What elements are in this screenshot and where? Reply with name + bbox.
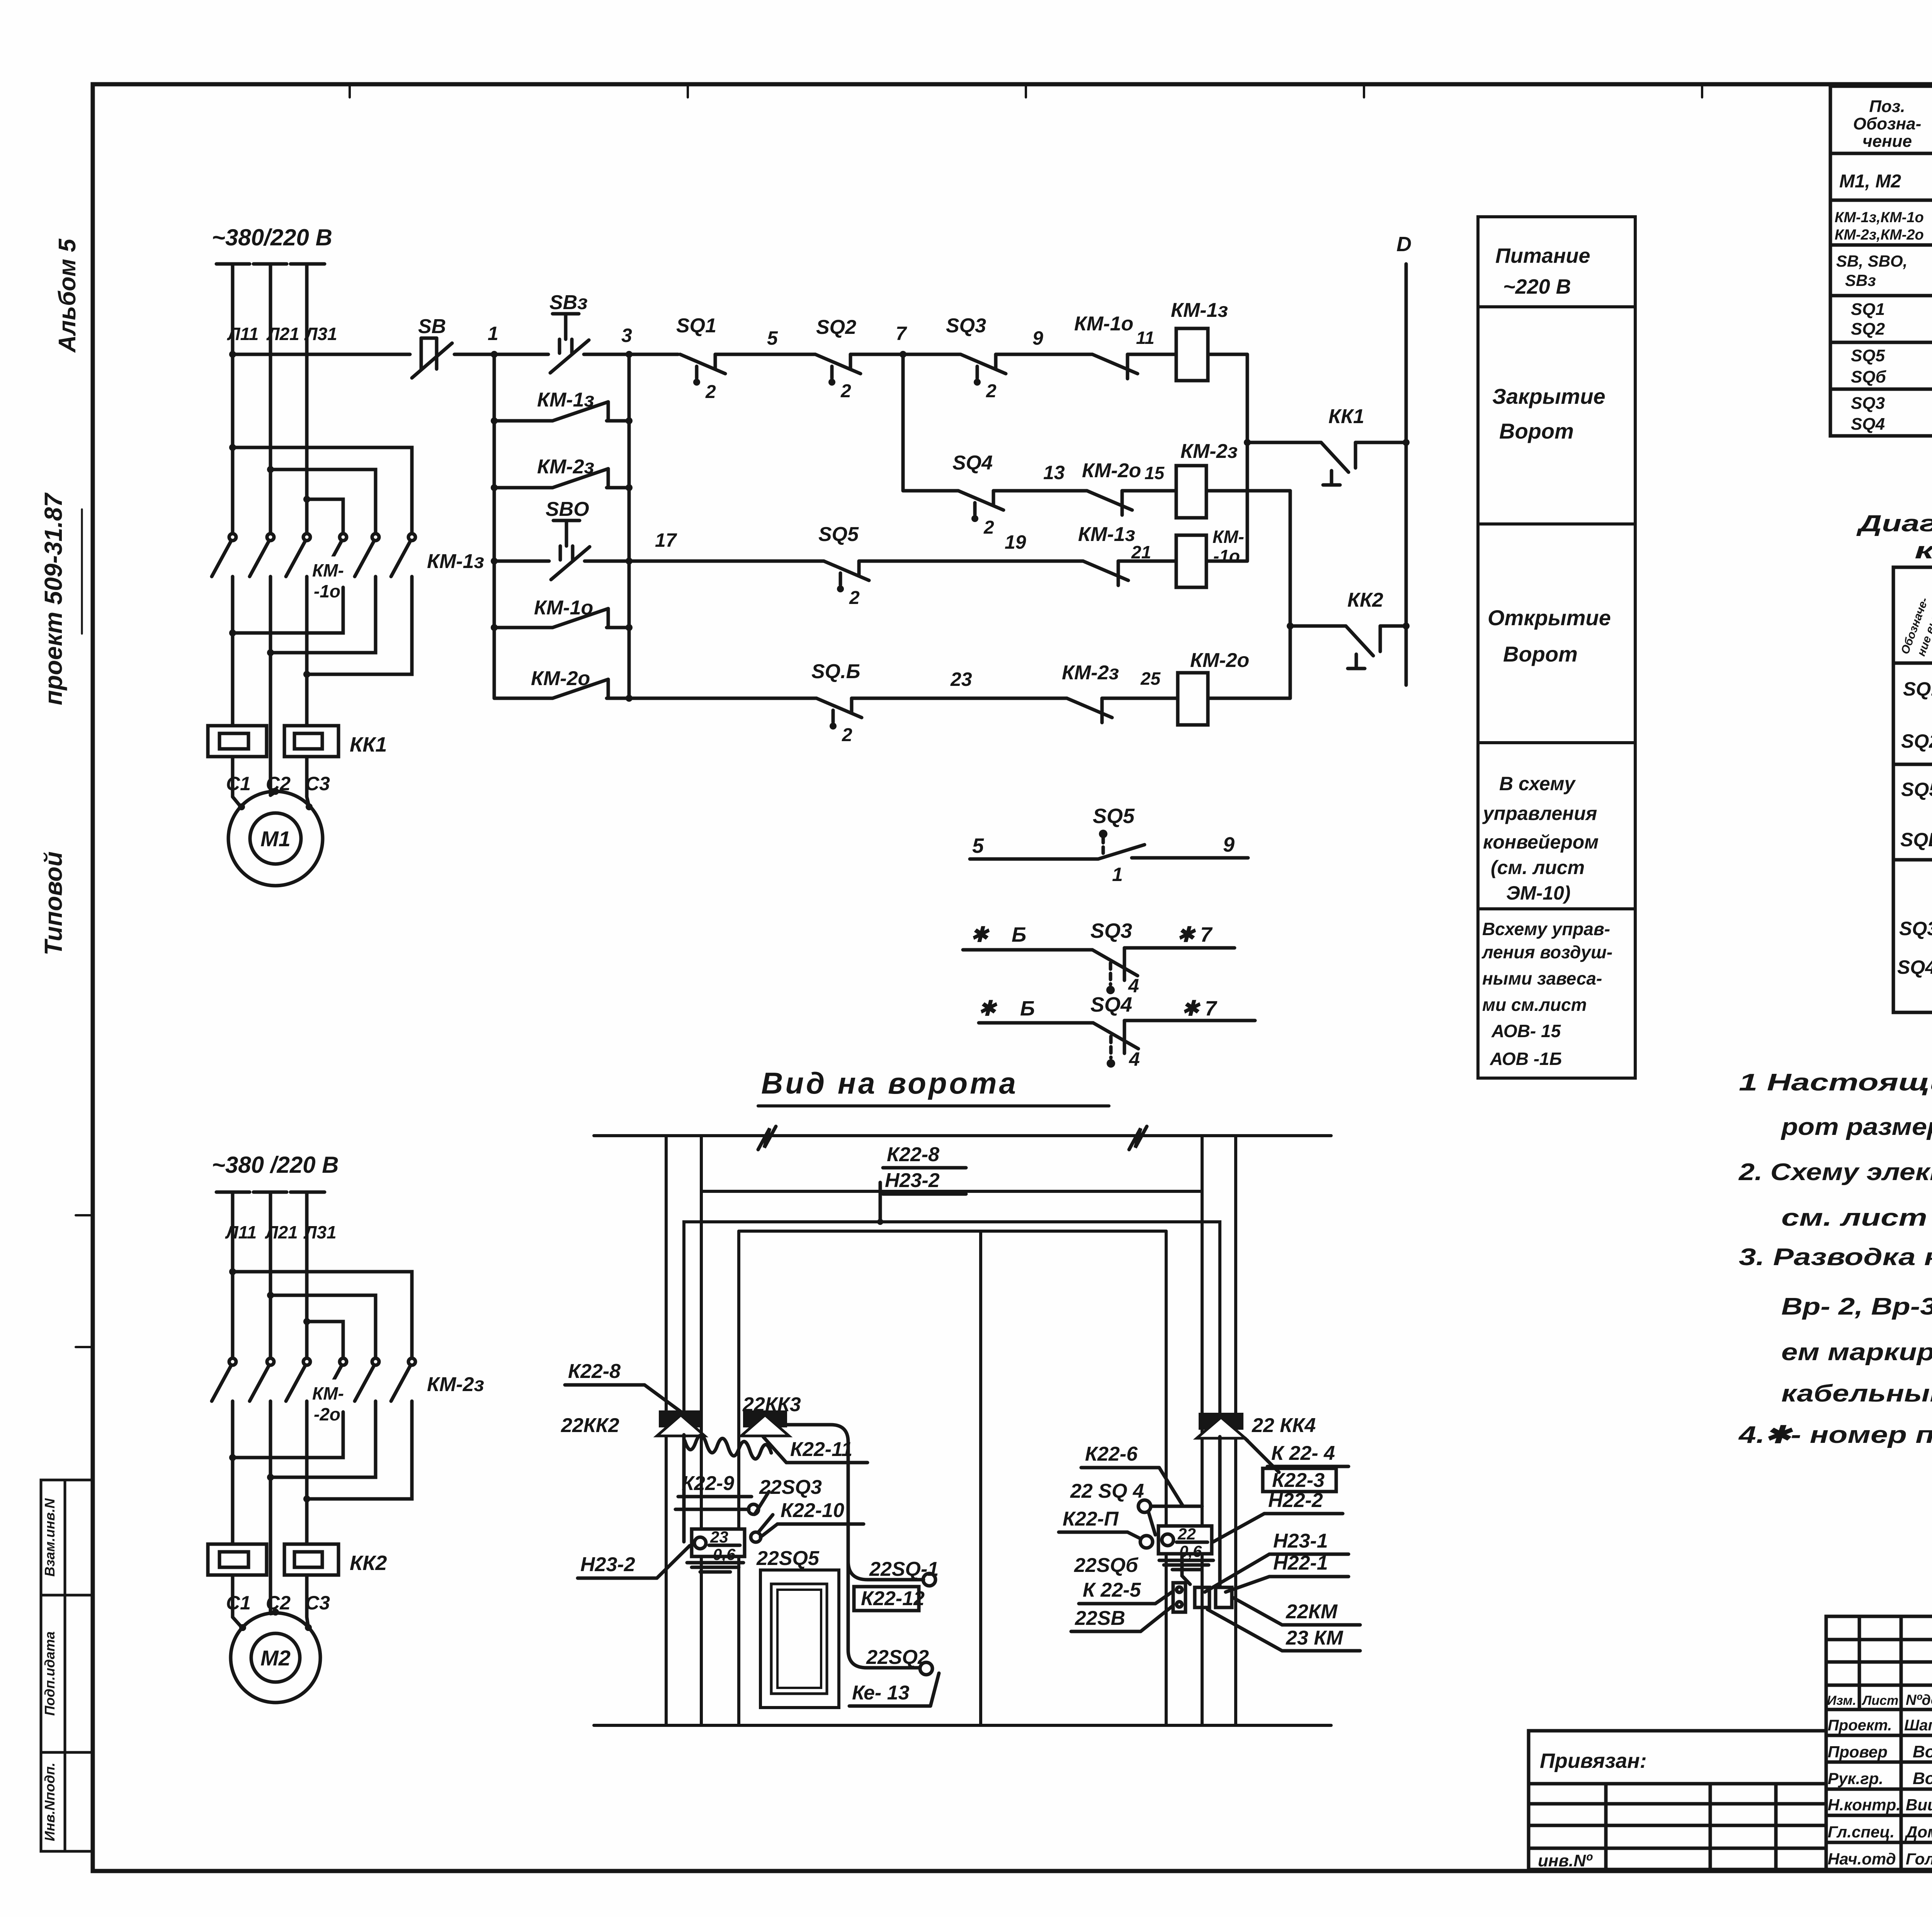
svg-text:чение: чение: [1862, 132, 1912, 151]
bracket 22SB: [1173, 1583, 1185, 1612]
motor M1 inner circle: [250, 813, 301, 864]
svg-text:1: 1: [1112, 864, 1123, 885]
label N22-1: [1226, 1552, 1349, 1592]
svg-text:-2о: -2о: [314, 1404, 340, 1424]
limit switch SQ1: [676, 315, 725, 402]
svg-text:~380 /220 В: ~380 /220 В: [212, 1152, 339, 1178]
svg-text:-1о: -1о: [1213, 546, 1240, 566]
svg-text:Лист: Лист: [1861, 1693, 1898, 1708]
svg-text:Шапошникова: Шапошникова: [1904, 1717, 1932, 1734]
svg-text:Подп.идата: Подп.идата: [42, 1631, 58, 1716]
wire row3 segment c: [1102, 697, 1178, 700]
diagram title: [1856, 510, 1932, 563]
strip divider vertical: [64, 1480, 66, 1851]
svg-text:Проект.: Проект.: [1828, 1717, 1892, 1734]
phase line L11: [231, 264, 235, 532]
bus node KK1: [1403, 439, 1410, 446]
svg-text:2: 2: [849, 588, 860, 608]
switch circle 22SQ-1: [923, 1573, 935, 1586]
svg-text:С1: С1: [226, 1592, 251, 1614]
SQ3 stem and dot: [1109, 963, 1112, 985]
svg-text:М1, М2: М1, М2: [1839, 171, 1901, 192]
row5 texts: [1851, 346, 1932, 387]
svg-text:Л11: Л11: [225, 1222, 257, 1242]
row line 3: [1830, 294, 1932, 298]
label K22-4: [1267, 1442, 1349, 1466]
air curtain 22KK3: [741, 1410, 789, 1436]
SQ5 right wire: [1132, 856, 1248, 860]
row2 texts: [1835, 204, 1932, 245]
label 22SQ2: [866, 1646, 929, 1669]
phase continuation to KK1: [231, 587, 235, 724]
svg-text:Н23-1: Н23-1: [1273, 1530, 1328, 1552]
svg-text:SQ4: SQ4: [1851, 415, 1885, 434]
label K22-12 boxed: [854, 1587, 925, 1611]
wire row1 segment b: [454, 353, 548, 356]
label K22-11: [763, 1437, 867, 1463]
label K22-9: [678, 1472, 752, 1497]
svg-text:4.✱- номер привода воздушной: 4.✱- номер привода воздушной завесы: [1738, 1422, 1932, 1448]
label K22-6: [1081, 1443, 1182, 1505]
M1-POWER: [208, 225, 484, 886]
thermal element KK1 a: [208, 726, 267, 757]
svg-text:22КК3: 22КК3: [742, 1393, 801, 1416]
svg-text:SQ3: SQ3: [1851, 394, 1885, 413]
SQ3 blade: [1092, 950, 1138, 976]
label 22SQ-1: [869, 1558, 939, 1580]
svg-text:Инв.Nподп.: Инв.Nподп.: [42, 1762, 58, 1841]
phase into motor: [231, 757, 235, 797]
svg-text:Н23-2: Н23-2: [580, 1553, 635, 1576]
svg-text:SQ3: SQ3: [1899, 918, 1932, 939]
svg-text:КМ-1з: КМ-1з: [1171, 299, 1228, 321]
svg-text:0,6: 0,6: [713, 1545, 736, 1563]
svg-text:АОВ -1Б: АОВ -1Б: [1490, 1049, 1562, 1069]
svg-text:23: 23: [710, 1528, 728, 1546]
contact bank KM-2o KM-2z: [212, 1358, 415, 1412]
svg-text:SBО: SBО: [546, 498, 589, 520]
svg-text:ными завеса-: ными завеса-: [1482, 968, 1602, 988]
svg-text:✱: ✱: [978, 997, 998, 1020]
label Ke-13: [849, 1673, 939, 1706]
staff col lines: [1858, 1616, 1861, 1709]
svg-text:SQ2: SQ2: [1851, 320, 1885, 338]
motor terminal dots: [238, 803, 245, 810]
svg-text:Типовой: Типовой: [39, 851, 67, 955]
svg-text:КК1: КК1: [1328, 405, 1364, 428]
svg-text:КМ-2з: КМ-2з: [427, 1373, 484, 1396]
lower jumper 1 m2: [233, 1412, 343, 1458]
left column outer: [665, 1136, 668, 1725]
node 3: [626, 351, 633, 358]
svg-text:ВолкоВа: ВолкоВа: [1913, 1769, 1932, 1788]
staff blank row lines: [1826, 1638, 1932, 1641]
svg-text:2: 2: [705, 382, 716, 402]
coil KM-1z: [1171, 299, 1228, 381]
svg-text:22SQ-1: 22SQ-1: [869, 1558, 939, 1580]
svg-text:22: 22: [1177, 1525, 1196, 1543]
svg-text:К22-6: К22-6: [1085, 1443, 1138, 1465]
phase line L21: [269, 264, 272, 532]
svg-text:1: 1: [488, 323, 498, 344]
svg-text:✱ 7: ✱ 7: [1182, 997, 1218, 1020]
limit switch SQ6: [811, 660, 862, 745]
contactor contact KM-2o row: [1082, 459, 1165, 515]
svg-text:КМ-2о: КМ-2о: [1082, 459, 1141, 482]
right switch circles 22SQ4: [1138, 1500, 1151, 1512]
svg-text:SQ2: SQ2: [816, 316, 856, 338]
row SQ6: [1900, 818, 1932, 858]
svg-text:1 Настоящий чертеж разработа: 1 Настоящий чертеж разработан для распаш…: [1739, 1069, 1932, 1096]
left cable to box: [682, 1435, 686, 1542]
air curtain 22KK2: [657, 1410, 705, 1436]
SQ5 stem and dot: [1102, 837, 1105, 857]
svg-text:SQ3: SQ3: [1090, 919, 1132, 942]
row SQ1: [1903, 678, 1932, 702]
branch KM-1o NO contact row: [491, 597, 633, 631]
SQ4 single: left wire: [979, 1021, 1093, 1025]
svg-text:КМ-1з: КМ-1з: [427, 550, 484, 573]
cable labels K22-8 N23-2: [883, 1143, 966, 1194]
svg-text:Н22-2: Н22-2: [1268, 1489, 1323, 1512]
wall top line: [594, 1134, 1331, 1137]
svg-text:КМ-2з: КМ-2з: [537, 456, 594, 478]
label K22-3 boxed: [1263, 1468, 1336, 1492]
pushbutton SB: [412, 315, 452, 378]
coil KM-2z: [1176, 440, 1238, 518]
svg-text:7: 7: [896, 323, 907, 344]
svg-text:~220 В: ~220 В: [1503, 275, 1571, 298]
limit switch SQ4: [952, 452, 1003, 538]
svg-text:АОВ- 15: АОВ- 15: [1491, 1021, 1561, 1041]
door top edge: [739, 1230, 1166, 1233]
svg-text:SQ5: SQ5: [1851, 346, 1885, 365]
svg-text:управления: управления: [1482, 803, 1597, 824]
svg-text:4: 4: [1129, 1048, 1140, 1070]
wire KM-2o contact to coil: [1122, 489, 1176, 493]
SQ3 bar: [1123, 948, 1126, 980]
thermal contact KK1: [1321, 405, 1364, 485]
limit switch SQ3: [946, 315, 1006, 401]
row SQ4: [1897, 954, 1932, 978]
svg-text:Б: Б: [1020, 997, 1035, 1020]
wire row1 segment g: [1128, 353, 1176, 356]
wire row2 segment a: [494, 560, 549, 563]
svg-text:SQ4: SQ4: [1090, 993, 1132, 1016]
gate view caption underline: [758, 1104, 1109, 1107]
cable from 22KK3 to switches: [786, 1425, 923, 1580]
wire box to lock: [1182, 1554, 1190, 1584]
label 22SB: [1071, 1606, 1173, 1631]
left border tick 2: [76, 1346, 93, 1348]
door right edge: [1165, 1231, 1168, 1725]
SQ4 stem and dot: [1109, 1036, 1113, 1058]
hatch under right box: [1159, 1560, 1213, 1570]
svg-text:Питание: Питание: [1495, 244, 1590, 267]
staff row labels: [1827, 1692, 1932, 1868]
svg-text:Ворот: Ворот: [1503, 642, 1578, 666]
row SQ3: [1899, 908, 1932, 946]
phase line L21 m2: [269, 1192, 272, 1357]
SQ5 single: left wire: [970, 857, 1098, 861]
svg-text:Провер: Провер: [1828, 1743, 1888, 1761]
wire coil KM-1z to vertical: [1208, 353, 1247, 356]
privyazan inner line 2: [1529, 1802, 1826, 1806]
row SQ5: [1901, 779, 1932, 805]
row1 texts: [1839, 158, 1932, 203]
contactor contact KM-2z row3: [1062, 662, 1161, 723]
label 23KM: [1207, 1609, 1360, 1651]
pushbutton SB3: [549, 291, 589, 373]
lintel line: [701, 1190, 1202, 1193]
row line 2: [1830, 243, 1932, 247]
svg-text:22 SQ 4: 22 SQ 4: [1070, 1480, 1144, 1502]
NOTES: [1738, 1069, 1932, 1448]
svg-text:К 22- 4: К 22- 4: [1271, 1442, 1335, 1465]
contact bank KM-1o KM-1z: [212, 534, 415, 587]
svg-text:К22-12: К22-12: [861, 1587, 925, 1610]
wire SQ4 row segment b: [993, 489, 1087, 493]
strip row line 1: [41, 1594, 93, 1597]
row line 1: [1830, 199, 1932, 202]
wire coil KM-2z to vertical: [1206, 489, 1290, 493]
label N23-2: [578, 1546, 690, 1578]
right vertical from node3: [628, 354, 631, 698]
svg-text:К22-8: К22-8: [887, 1143, 939, 1166]
row4 texts: [1851, 300, 1932, 341]
svg-text:SQБ: SQБ: [1900, 829, 1932, 850]
svg-text:В схему: В схему: [1499, 773, 1576, 794]
cable label leader vertical: [879, 1182, 882, 1222]
crossover jumper 3 m2: [307, 1322, 343, 1357]
crossover jumper 1: [233, 447, 412, 532]
svg-text:Л11: Л11: [227, 324, 259, 344]
thermal element KK1 b: [284, 726, 338, 757]
cable to 22SQ2: [848, 1561, 920, 1668]
svg-text:КМ-: КМ-: [1213, 527, 1244, 547]
svg-text:Гл.спец.: Гл.спец.: [1828, 1823, 1895, 1841]
svg-text:Ке- 13: Ке- 13: [852, 1682, 910, 1704]
title block outer right: [1826, 1616, 1932, 1869]
vertical from node7 down: [901, 354, 905, 491]
svg-text:13: 13: [1043, 462, 1065, 483]
crossover jumper 2 m2: [270, 1295, 376, 1357]
lower jumper 2: [270, 587, 376, 653]
lower jumper 1: [233, 587, 343, 633]
svg-text:К22-8: К22-8: [568, 1360, 621, 1383]
svg-text:✱ 7: ✱ 7: [1177, 923, 1213, 946]
node at KK2 branch: [1287, 623, 1294, 629]
svg-text:конечных выключателей: конечных выключателей: [1915, 538, 1932, 563]
floor line: [594, 1724, 1331, 1727]
svg-text:Всхему управ-: Всхему управ-: [1482, 919, 1610, 939]
svg-text:21: 21: [1131, 542, 1151, 562]
separator 1: [1478, 305, 1635, 308]
phase continuation to KK2: [231, 1412, 235, 1543]
wire row2 segment d: [1118, 560, 1176, 563]
privyazan inner line 1: [1529, 1782, 1826, 1786]
svg-text:конвейером: конвейером: [1483, 831, 1599, 853]
SUBSCHEMATICS: [758, 805, 1255, 1106]
svg-text:Волкова: Волкова: [1913, 1742, 1932, 1761]
GATE-VIEW: [561, 1126, 1360, 1725]
SQ4 blade: [1093, 1023, 1138, 1049]
svg-text:С3: С3: [305, 1592, 330, 1614]
lower jumper 2 m2: [270, 1412, 376, 1477]
svg-text:Обозна-: Обозна-: [1853, 114, 1922, 133]
svg-text:Диаграмма срабатывания контак: Диаграмма срабатывания контактов: [1856, 510, 1932, 536]
svg-text:3. Разводка кабелей выполнен: 3. Разводка кабелей выполнена для ворот …: [1739, 1244, 1932, 1271]
parts table outer: [1830, 86, 1932, 436]
privyazan box: [1529, 1731, 1826, 1869]
junction box 22/0.6 right: [1158, 1525, 1212, 1560]
phase line L31: [305, 264, 309, 532]
svg-text:SBз: SBз: [1845, 271, 1876, 289]
svg-text:22SВ: 22SВ: [1075, 1607, 1125, 1630]
svg-text:Взам.инв.N: Взам.инв.N: [42, 1498, 58, 1577]
svg-text:✱: ✱: [971, 923, 990, 946]
svg-text:Л21: Л21: [266, 324, 299, 344]
label 22KK4: [1245, 1414, 1316, 1472]
privyazan inner line 4: [1529, 1847, 1826, 1850]
branch KM-1z NO contact row: [491, 389, 633, 424]
svg-text:2. Схему электрическую принц: 2. Схему электрическую принципиальную- п…: [1738, 1159, 1932, 1186]
svg-text:17: 17: [655, 529, 677, 551]
SQ3 right wire: [1124, 946, 1235, 950]
svg-text:Домбровская: Домбровская: [1905, 1823, 1932, 1841]
bus D vertical: [1405, 264, 1408, 685]
svg-text:КМ-1з: КМ-1з: [537, 389, 594, 411]
wire to KK2: [1290, 624, 1346, 628]
svg-text:SQ4: SQ4: [952, 452, 993, 474]
svg-text:Л21: Л21: [265, 1222, 298, 1242]
underline for 509-31.87: [81, 509, 83, 634]
label K22-7: [1059, 1508, 1141, 1539]
svg-text:SQ3: SQ3: [946, 315, 986, 337]
svg-text:SQ1: SQ1: [1903, 678, 1932, 700]
left border tick 1: [76, 1214, 93, 1216]
switch lever right: [1148, 1512, 1155, 1535]
control tap node: [229, 351, 236, 358]
svg-text:ВишнеВский: ВишнеВский: [1906, 1796, 1932, 1814]
CONTACT-TABLE: [1856, 510, 1932, 1012]
label K22-10: [760, 1499, 864, 1537]
svg-text:Изм.: Изм.: [1827, 1693, 1856, 1708]
svg-text:КК2: КК2: [350, 1551, 387, 1575]
svg-text:инв.Nº: инв.Nº: [1538, 1851, 1593, 1870]
svg-text:С1: С1: [226, 773, 251, 794]
ct row line 2: [1893, 763, 1932, 766]
wire SQ4 row segment a: [903, 489, 958, 493]
coil KM-2o: [1178, 649, 1249, 725]
svg-text:Открытие: Открытие: [1488, 606, 1611, 630]
privyazan col 2: [1709, 1784, 1712, 1869]
svg-text:15: 15: [1145, 463, 1165, 483]
svg-text:КМ-1о: КМ-1о: [1074, 313, 1133, 335]
svg-text:Л31: Л31: [303, 1222, 337, 1242]
svg-text:КК1: КК1: [350, 733, 387, 756]
svg-text:SBз: SBз: [549, 291, 588, 314]
svg-text:Вр- 2, Вр-3, Вр- 4 разводка: Вр- 2, Вр-3, Вр- 4 разводка аналогична с…: [1781, 1293, 1932, 1320]
svg-text:2: 2: [986, 381, 997, 401]
crossover jumper 3: [307, 499, 343, 532]
door left edge: [737, 1231, 740, 1725]
svg-text:Nºдокум.: Nºдокум.: [1906, 1692, 1932, 1708]
wire coil KM-1o to vertical: [1206, 560, 1247, 563]
phase line L11 m2: [231, 1192, 235, 1357]
svg-text:23 КМ: 23 КМ: [1286, 1627, 1344, 1649]
motor terminal dots m2: [239, 1624, 246, 1631]
svg-text:SQ4: SQ4: [1897, 956, 1932, 978]
limit switch SQ2: [815, 316, 861, 401]
wire row2 segment c: [859, 560, 1083, 563]
row line 5: [1830, 388, 1932, 391]
svg-text:КМ-1з,КМ-1о: КМ-1з,КМ-1о: [1835, 209, 1924, 226]
svg-text:23: 23: [950, 668, 972, 690]
node at KK1 branch: [1244, 439, 1251, 446]
svg-text:SQ5: SQ5: [1093, 805, 1135, 828]
svg-text:Б: Б: [1012, 923, 1026, 946]
svg-text:5: 5: [767, 327, 778, 349]
svg-text:5: 5: [972, 834, 984, 857]
separator 2: [1478, 522, 1635, 526]
header texts: [1853, 97, 1932, 151]
SQ4 right wire: [1124, 1019, 1255, 1022]
contact label KM-1o boxed: [309, 556, 352, 603]
strip row line 2: [41, 1751, 93, 1754]
svg-text:ления воздуш-: ления воздуш-: [1481, 942, 1612, 962]
stubs into motor: [233, 797, 241, 808]
SQ3 single: left wire: [963, 948, 1092, 952]
svg-text:Поз.: Поз.: [1869, 97, 1905, 116]
lower jumper 3: [307, 587, 412, 674]
svg-text:19: 19: [1005, 531, 1026, 553]
contactor contact KM-1o row1: [1074, 313, 1155, 379]
svg-text:Н23-2: Н23-2: [885, 1169, 940, 1192]
svg-text:22КК2: 22КК2: [561, 1414, 619, 1437]
svg-text:КМ-2з: КМ-2з: [1180, 440, 1238, 463]
svg-text:SQ1: SQ1: [1851, 300, 1885, 319]
door handle 22SQ5: [760, 1570, 839, 1708]
label N22-2: [1213, 1489, 1343, 1542]
svg-text:ем маркировки кабелей всоотв: ем маркировки кабелей всоответствии с: [1781, 1339, 1932, 1366]
svg-text:(см. лист: (см. лист: [1491, 857, 1585, 878]
vertical joining to KK2: [1289, 491, 1292, 698]
svg-text:Привязан:: Привязан:: [1540, 1749, 1647, 1772]
wire row3 segment a: [607, 697, 816, 700]
lower jumper 3 m2: [307, 1412, 412, 1499]
svg-text:Вид на ворота: Вид на ворота: [761, 1066, 1018, 1100]
left vertical from node1: [493, 354, 496, 698]
svg-text:SQ5: SQ5: [818, 523, 859, 546]
svg-text:-1о: -1о: [314, 581, 340, 601]
SQ5 blade: [1098, 845, 1145, 859]
svg-text:КМ-: КМ-: [312, 560, 344, 580]
svg-text:D: D: [1396, 233, 1412, 256]
row3 texts: [1836, 252, 1932, 292]
stubs into motor m2: [233, 1617, 243, 1628]
svg-text:КМ-2о: КМ-2о: [531, 667, 590, 690]
svg-text:КК2: КК2: [1347, 589, 1383, 611]
svg-text:SQ2: SQ2: [1901, 730, 1932, 752]
svg-text:Нач.отд: Нач.отд: [1828, 1850, 1896, 1868]
svg-text:КМ-1з: КМ-1з: [1078, 523, 1135, 546]
svg-text:Рук.гр.: Рук.гр.: [1828, 1769, 1883, 1788]
hatch under box: [687, 1563, 743, 1572]
wire to KK1: [1247, 441, 1321, 444]
svg-text:2: 2: [983, 517, 994, 538]
PARTS-TABLE: [1830, 86, 1932, 436]
